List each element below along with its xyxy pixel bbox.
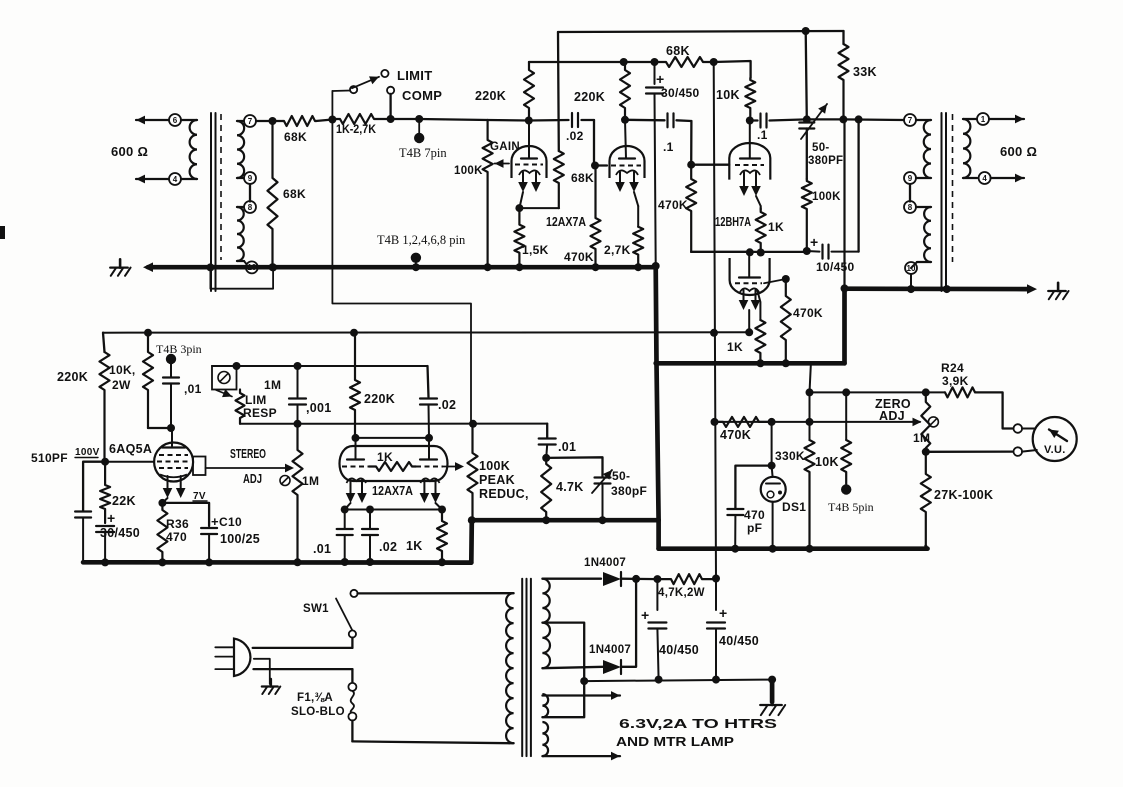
terminal T4B 1,2,4,6,8 pin — [411, 253, 421, 263]
wire cathode node — [162, 498, 167, 503]
junction rail R36 — [158, 558, 166, 566]
junction .01 peak bottom — [542, 454, 550, 462]
transformer T1 primary winding — [181, 119, 197, 121]
svg-text:R36: R36 — [166, 517, 189, 531]
tube V3 plate box — [193, 457, 206, 476]
screw zero adj — [928, 417, 938, 427]
wire DS1 top — [771, 422, 773, 466]
svg-text:6: 6 — [173, 116, 178, 125]
svg-text:ADJ: ADJ — [243, 472, 262, 486]
resistor 470K grid 12BH7A — [686, 165, 696, 252]
svg-text:.01: .01 — [558, 440, 576, 454]
wire .02 to tube2 grid — [594, 120, 607, 166]
resistor 470K grid V2b — [781, 279, 791, 363]
capacitor 50-380pF trimmer 1 — [806, 119, 808, 122]
resistor 4.7K — [541, 458, 551, 520]
terminal pin 7 — [244, 115, 256, 127]
junction lower plate node — [746, 248, 754, 256]
junction 10K meter top — [842, 388, 850, 396]
junction bus shield left — [206, 263, 214, 271]
svg-text:SLO-BLO: SLO-BLO — [291, 706, 345, 718]
svg-text:8: 8 — [248, 203, 253, 212]
terminal pin 4 — [169, 173, 181, 185]
svg-text:LIM: LIM — [245, 393, 267, 407]
wire input arrow pin 4 — [136, 178, 169, 180]
svg-text:PEAK: PEAK — [479, 473, 515, 487]
svg-text:T4B 3pin: T4B 3pin — [156, 342, 202, 356]
svg-text:7: 7 — [248, 117, 253, 126]
capacitor C10 100/25 — [162, 503, 209, 526]
wire trimmer to 33K node — [807, 118, 844, 120]
wire zero rail — [811, 391, 945, 393]
junction bus 470pF — [731, 545, 739, 553]
wire HV bottom — [542, 667, 603, 668]
tube V4b grid — [416, 466, 443, 468]
svg-text:68K: 68K — [571, 171, 594, 185]
wire heater top arrow — [542, 694, 620, 696]
wire B+ to 10K — [714, 61, 751, 78]
wire lim resp bottom — [240, 423, 547, 425]
resistor 220K control — [103, 333, 105, 352]
resistor R36 470 — [157, 503, 167, 563]
wire DS1 rail — [715, 421, 921, 423]
capacitor 30/450 electrolytic — [654, 62, 656, 84]
svg-text:10K: 10K — [815, 455, 839, 469]
resistor 68K shunt — [268, 121, 278, 267]
capacitor 40/450 first — [656, 579, 658, 610]
svg-text:1: 1 — [981, 115, 986, 124]
svg-text:220K: 220K — [57, 370, 88, 384]
wire pin10 to bus — [910, 274, 912, 289]
transformer T1 core — [210, 113, 212, 291]
tube V4a plate — [355, 438, 357, 460]
svg-text:1K-2,7K: 1K-2,7K — [336, 124, 377, 136]
resistor 68K B+ filter — [655, 57, 714, 67]
svg-text:ADJ: ADJ — [879, 409, 905, 423]
wire pot to VU minus — [926, 450, 1013, 452]
terminal pin 9 — [244, 172, 256, 184]
wire node to T4B7 node — [391, 118, 420, 120]
resistor 10K plate 12BH7A — [745, 78, 755, 121]
resistor 330K — [809, 422, 811, 440]
lamp DS1 neon — [761, 477, 786, 502]
tube V4b plate — [428, 438, 430, 460]
ground bus right — [659, 546, 928, 551]
tube V1a cathode — [519, 170, 540, 175]
capacitor .001 — [297, 366, 299, 397]
svg-text:R24: R24 — [941, 361, 964, 375]
junction feedback top node — [802, 27, 810, 35]
scan artifact left edge — [0, 226, 5, 239]
junction B+ rail mid — [710, 329, 718, 337]
junction bus 330K — [806, 545, 814, 553]
wire stereo adj wiper — [206, 467, 289, 469]
resistor 220K plate 1 — [524, 62, 534, 121]
tube V1a plate — [521, 157, 537, 159]
tube V2a cathode — [740, 170, 760, 175]
tube V3 cathode arrows — [167, 476, 169, 491]
svg-text:50-: 50- — [812, 142, 830, 154]
junction V2b cathode rail — [745, 328, 753, 336]
junction cathode 6AQ5A — [158, 499, 166, 507]
svg-text:2W: 2W — [112, 378, 131, 392]
chassis ground plug — [262, 685, 278, 687]
wire gain to tube1 plate node — [488, 119, 529, 122]
chassis ground PSU — [760, 704, 782, 706]
wire ground drop right — [843, 119, 845, 288]
junction COMP node — [387, 115, 395, 123]
wire core shield ground — [945, 270, 947, 289]
svg-text:68K: 68K — [283, 187, 306, 201]
junction 12BH7A grid node — [687, 161, 695, 169]
tube V2b grid — [735, 282, 762, 284]
capacitor 470pF — [735, 466, 771, 508]
resistor 27K-100K — [921, 452, 931, 546]
junction riser top — [855, 115, 863, 123]
wire SW1 to transformer — [358, 592, 510, 595]
junction 470K V2b bottom — [782, 359, 790, 367]
rail PSU common — [584, 680, 772, 682]
junction rail .01 — [341, 558, 349, 566]
svg-text:100K: 100K — [454, 165, 483, 177]
transformer T3 heater winding — [542, 694, 548, 717]
junction tube1 plate node — [525, 117, 533, 125]
svg-text:10K,: 10K, — [109, 363, 136, 377]
capacitor .02 cathode — [369, 510, 371, 529]
svg-text:T4B 7pin: T4B 7pin — [399, 146, 447, 160]
svg-text:68K: 68K — [284, 130, 307, 144]
svg-text:LIMIT: LIMIT — [397, 68, 432, 83]
wire SW1 bottom — [351, 638, 353, 648]
junction DS1 top node — [768, 462, 776, 470]
svg-text:F1,⅜A: F1,⅜A — [297, 692, 333, 704]
svg-text:4: 4 — [982, 174, 987, 183]
svg-text:DS1: DS1 — [782, 500, 806, 514]
terminal out pin 10 — [905, 262, 917, 274]
potentiometer GAIN 100K — [483, 120, 493, 267]
svg-text:330K: 330K — [775, 449, 805, 463]
junction plate node 6AQ5A — [167, 424, 175, 432]
wire grid link — [356, 437, 430, 439]
svg-text:600 Ω: 600 Ω — [111, 144, 148, 159]
svg-text:600 Ω: 600 Ω — [1000, 144, 1037, 159]
capacitor 40/450 second — [715, 579, 717, 611]
junction rail 68K right — [710, 58, 718, 66]
svg-text:10/450: 10/450 — [816, 260, 855, 274]
transformer T3 core — [521, 579, 523, 756]
capacitor .02 coupling — [529, 119, 569, 122]
junction rail 30/450 — [101, 558, 109, 566]
terminal out pin 7 — [904, 114, 916, 126]
junction bus DS1 — [769, 545, 777, 553]
wire D1 cathode — [621, 578, 657, 581]
junction rail ground — [768, 676, 776, 684]
svg-text:470K: 470K — [658, 198, 688, 212]
resistor 100K feedback — [802, 179, 812, 251]
svg-text:T4B 1,2,4,6,8 pin: T4B 1,2,4,6,8 pin — [377, 233, 466, 247]
svg-text:RESP: RESP — [243, 406, 277, 420]
svg-text:1K: 1K — [406, 539, 423, 553]
tube V1b cathode — [616, 170, 638, 175]
wire T4B7 to gain pot — [419, 119, 487, 120]
svg-text:1M: 1M — [913, 431, 930, 445]
capacitor 510PF — [83, 462, 105, 511]
svg-text:30/450: 30/450 — [661, 86, 700, 100]
svg-text:REDUC,: REDUC, — [479, 487, 529, 501]
junction switch node — [328, 116, 336, 124]
svg-text:SW1: SW1 — [303, 603, 329, 615]
junction gain pot bottom — [484, 263, 492, 271]
tube V1b plate — [619, 157, 635, 159]
capacitor .01 grid — [170, 364, 172, 377]
svg-text:4,7K,2W: 4,7K,2W — [658, 587, 705, 599]
wire tube1 cathode — [519, 192, 523, 208]
resistor 68K feedback — [557, 32, 560, 151]
tube V4a cathode — [347, 478, 367, 483]
svg-text:30/450: 30/450 — [100, 526, 140, 540]
junction T4B7 node — [415, 115, 423, 123]
wire HV top — [542, 578, 601, 580]
potentiometer LIM RESP 1M — [216, 390, 232, 397]
wire feedback drop — [806, 31, 807, 119]
svg-text:pF: pF — [747, 521, 762, 535]
transformer T3 HV winding — [542, 579, 549, 623]
junction 12BH7A plate node — [746, 117, 754, 125]
wire B+ riser — [714, 62, 716, 579]
svg-text:100/25: 100/25 — [220, 532, 260, 546]
resistor 220K plate 2 — [620, 62, 630, 120]
wire output arrow pin 1 — [989, 118, 1024, 120]
svg-text:100V: 100V — [75, 447, 100, 458]
tube V2a 12BH7A envelope — [729, 143, 770, 180]
junction 1.5K bottom — [515, 263, 523, 271]
svg-text:.02: .02 — [379, 540, 397, 554]
ground bus stereo — [472, 518, 659, 523]
svg-text:AND MTR LAMP: AND MTR LAMP — [616, 734, 734, 749]
junction 470K g2 bottom — [592, 263, 600, 271]
wire V2b grid lead — [764, 279, 786, 283]
wire fuse to transformer — [351, 721, 353, 742]
trimmer LIM RESP box — [212, 366, 237, 390]
terminal LIMIT — [381, 70, 388, 77]
resistor 2.7K cathode — [633, 227, 643, 268]
potentiometer 100K PEAK REDUC — [468, 424, 478, 520]
potentiometer ZERO ADJ 1M — [921, 392, 930, 451]
resistor 1K cathode 12BH7A — [756, 208, 766, 253]
junction rail C1 — [655, 676, 663, 684]
junction output ground bus — [841, 284, 849, 292]
wire switch to peak pot — [332, 91, 471, 424]
tube V2a plate — [740, 157, 760, 159]
wire rail corner up — [469, 520, 474, 562]
tube V2b 12BH7A lower envelope — [730, 258, 770, 295]
svg-text:.1: .1 — [757, 128, 768, 142]
junction rail 220K mid — [350, 329, 358, 337]
junction box right — [233, 362, 241, 370]
svg-text:1M: 1M — [302, 474, 319, 488]
junction 1K V2b bottom — [756, 359, 764, 367]
junction zero pot top — [922, 388, 930, 396]
plug AC — [234, 639, 250, 676]
resistor 1K grid-grid — [369, 462, 416, 471]
ground bus output — [845, 286, 1031, 291]
wire 27K bus corner — [926, 546, 928, 549]
ground rail bottom — [83, 560, 471, 565]
wire 12BH7A cathode — [756, 196, 761, 206]
svg-text:220K: 220K — [364, 392, 395, 406]
junction 2.7K bottom — [634, 263, 642, 271]
tube V4a grid — [342, 466, 369, 468]
diode D1 1N4007 — [603, 572, 621, 586]
svg-text:380PF: 380PF — [808, 155, 843, 167]
svg-text:9: 9 — [248, 174, 253, 183]
wire ground trunk vertical — [653, 265, 658, 363]
svg-text:470K: 470K — [793, 306, 823, 320]
tube V3 plate — [171, 428, 173, 446]
svg-text:.1: .1 — [663, 140, 674, 154]
resistor 470K DS1 — [715, 417, 772, 427]
svg-text:27K-100K: 27K-100K — [934, 488, 993, 502]
svg-text:1N4007: 1N4007 — [589, 644, 631, 656]
fuse F1 — [348, 683, 356, 691]
svg-text:220K: 220K — [475, 89, 506, 103]
junction bus trimmer2 — [599, 516, 607, 524]
svg-text:8: 8 — [908, 203, 913, 212]
wire 33K node to pin7 — [843, 118, 904, 121]
resistor R24 3.9K — [945, 387, 976, 397]
svg-text:.02: .02 — [566, 129, 584, 143]
svg-text:380pF: 380pF — [611, 484, 647, 498]
junction bus 4.7K — [542, 516, 550, 524]
svg-text:510PF: 510PF — [31, 451, 68, 465]
capacitor .1 coupling b — [750, 119, 758, 121]
tube V2b cathode — [740, 288, 760, 293]
junction 330K wire1 — [806, 388, 814, 396]
svg-text:+: + — [656, 71, 664, 87]
tube V1a 12AX7A envelope — [512, 146, 547, 178]
svg-text:3,9K: 3,9K — [942, 374, 969, 388]
svg-text:.01: .01 — [313, 542, 331, 556]
junction .001 top — [294, 362, 302, 370]
capacitor .01 peak — [546, 424, 548, 438]
switch S1 LIMIT/COMP — [350, 86, 357, 93]
junction rail 30-450 — [651, 58, 659, 66]
svg-text:470K: 470K — [720, 428, 751, 442]
junction 68K shunt bottom — [269, 263, 277, 271]
svg-text:12BH7A: 12BH7A — [715, 215, 751, 229]
resistor 1K cathode V4 — [437, 510, 447, 563]
ground bus input — [148, 265, 656, 270]
svg-text:50-: 50- — [612, 469, 630, 483]
transformer T3 primary — [509, 592, 513, 594]
wire V2b cathode to rail — [748, 310, 750, 332]
junction V4 cath left — [341, 506, 349, 514]
resistor 470K grid 2 — [591, 166, 601, 268]
junction 33K bottom — [839, 115, 847, 123]
resistor 10K meter — [845, 392, 847, 440]
terminal COMP — [387, 87, 394, 94]
capacitor .01 cathode — [344, 510, 346, 529]
terminal VU plus — [1014, 424, 1023, 433]
meter VU — [1033, 417, 1077, 461]
svg-text:STEREO: STEREO — [230, 447, 266, 461]
junction 4.7K right B+ — [712, 575, 720, 583]
junction V2b grid node — [782, 275, 790, 283]
terminal VU minus — [1014, 447, 1023, 456]
capacitor .02 stage3 — [428, 366, 429, 397]
junction zero pot mid — [922, 448, 930, 456]
junction rail taps — [580, 677, 588, 685]
resistor 220K stage3 — [350, 333, 360, 438]
junction B+ 470K — [711, 418, 719, 426]
junction tube1 cathode — [515, 204, 523, 212]
junction tube2 plate node — [621, 116, 629, 124]
wire ground bus middle — [656, 361, 845, 366]
svg-text:100K: 100K — [479, 459, 510, 473]
terminal out pin 8 — [904, 201, 916, 213]
svg-text:12AX7A: 12AX7A — [546, 215, 586, 229]
junction peak pot top — [469, 420, 477, 428]
svg-text:470: 470 — [166, 530, 187, 544]
junction rail 10K2W — [144, 329, 152, 337]
transformer T1 secondary winding lower — [237, 206, 244, 208]
terminal out pin 1 — [977, 113, 989, 125]
wire lim resp rail — [212, 365, 428, 367]
terminal out pin 9 — [904, 172, 916, 184]
junction rail 220K2 — [620, 58, 628, 66]
diode D2 1N4007 — [603, 660, 621, 674]
transformer T2 core — [941, 113, 943, 291]
junction 30/450 ground — [652, 262, 660, 270]
resistor 4.7K 2W — [657, 574, 716, 584]
junction tube2 grid node — [591, 162, 599, 170]
wire input arrow pin 6 — [136, 119, 169, 121]
svg-text:T4B 5pin: T4B 5pin — [828, 500, 874, 514]
svg-text:1K: 1K — [377, 450, 393, 464]
junction rail .02 — [366, 558, 374, 566]
terminal pin 6 — [169, 114, 181, 126]
transformer T1 secondary winding upper — [237, 120, 244, 122]
tube V1b grid — [611, 165, 641, 167]
junction D1 out — [632, 575, 640, 583]
chassis ground input — [110, 267, 128, 269]
junction .001 bottom — [294, 420, 302, 428]
junction 330K wire2 — [806, 418, 814, 426]
wire 100V to tube — [105, 461, 154, 463]
wire ground bus drop — [657, 363, 659, 520]
wire wiper to peak pot — [443, 466, 458, 468]
wire out pin9 to pin8 — [909, 184, 911, 202]
wire plug ground — [254, 659, 270, 684]
junction bus shield right — [269, 263, 277, 271]
tube V3 cathode — [160, 475, 187, 478]
resistor 1K cathode V2b — [758, 291, 761, 320]
junction 100V node — [101, 458, 109, 466]
resistor 1.5K cathode — [514, 208, 524, 267]
junction rail 1K4 — [438, 558, 446, 566]
svg-text:1N4007: 1N4007 — [584, 557, 626, 569]
wire cathode rail V4 — [345, 509, 442, 511]
svg-text:.02: .02 — [438, 398, 456, 412]
svg-text:12AX7A: 12AX7A — [372, 484, 413, 498]
svg-text:220K: 220K — [574, 90, 605, 104]
wire .1 to 12BH7A grid — [691, 121, 729, 165]
svg-text:+: + — [107, 510, 115, 526]
resistor 1K-2.7K — [332, 114, 390, 124]
junction 470K DS1 right — [768, 418, 776, 426]
svg-text:6AQ5A: 6AQ5A — [109, 442, 152, 456]
wire D2 cathode — [621, 579, 636, 667]
